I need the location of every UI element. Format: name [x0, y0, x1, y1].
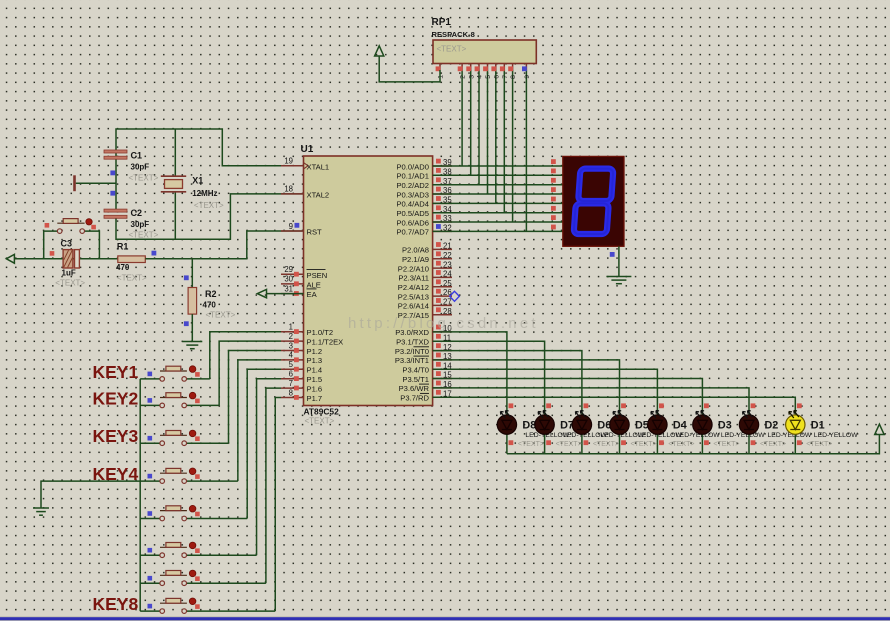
svg-text:LED-YELLOW: LED-YELLOW — [721, 432, 765, 439]
wire P0 rows to 7-seg display — [433, 165, 563, 167]
svg-text:<TEXT>: <TEXT> — [117, 274, 147, 283]
LED D7 — [535, 415, 554, 434]
svg-text:AT89C52: AT89C52 — [304, 407, 340, 417]
wire XTAL1 net: C1 top to U1 pin 19 — [116, 129, 304, 166]
svg-text:<TEXT>: <TEXT> — [806, 441, 832, 448]
capacitor C1 — [104, 150, 127, 153]
svg-text:P2.3/A11: P2.3/A11 — [398, 274, 429, 283]
svg-text:P3.2/INT0: P3.2/INT0 — [395, 347, 429, 356]
svg-text:P1.2: P1.2 — [307, 347, 323, 356]
svg-text:<TEXT>: <TEXT> — [631, 441, 657, 448]
resistor pack RP1 RESPACK-8 — [433, 40, 536, 64]
node red square near C3 — [50, 251, 55, 256]
svg-text:470: 470 — [203, 301, 217, 310]
wire X1 crystal branch — [174, 129, 176, 239]
svg-text:P2.5/A13: P2.5/A13 — [398, 292, 429, 301]
svg-text:C2: C2 — [131, 208, 143, 218]
svg-text:P1.6: P1.6 — [307, 384, 323, 393]
wire C1-C2 middle node to ground stub — [76, 153, 116, 210]
svg-text:<TEXT>: <TEXT> — [129, 230, 159, 239]
svg-text:P1.1/T2EX: P1.1/T2EX — [307, 337, 344, 346]
wire XTAL2 net: C2 bottom / X1 bottom to U1 pin 18 — [116, 194, 304, 239]
ground (keys) — [33, 507, 49, 509]
svg-text:D1: D1 — [811, 420, 825, 432]
svg-text:RST: RST — [307, 228, 323, 237]
wire RP1 pin columns to P0 rows — [461, 70, 463, 166]
svg-text:30pF: 30pF — [131, 163, 150, 172]
wire key 3 to U1 P1.2 — [229, 351, 282, 444]
wire RST net: R1 to U1 pin 9 — [145, 231, 303, 259]
op-amp-style MCU body U1 AT89C52 — [304, 156, 433, 406]
svg-text:<TEXT>: <TEXT> — [194, 201, 224, 210]
capacitor C3 (electrolytic) — [63, 250, 73, 268]
wire RP1 pin1 to power — [379, 56, 440, 82]
ground (7-seg) — [606, 276, 631, 278]
svg-text:P0.0/AD0: P0.0/AD0 — [396, 162, 429, 171]
svg-text:D4: D4 — [673, 420, 687, 432]
wire key 6 to U1 P1.5 — [257, 379, 281, 556]
power terminal (up arrow, LED bus) — [875, 424, 884, 434]
push button key 3 — [140, 442, 160, 444]
svg-text:8: 8 — [510, 75, 517, 79]
svg-text:P0.2/AD2: P0.2/AD2 — [396, 181, 429, 190]
svg-text:P3.7/RD: P3.7/RD — [400, 394, 429, 403]
svg-text:3: 3 — [289, 341, 293, 350]
svg-text:30: 30 — [284, 275, 293, 284]
svg-text:<TEXT>: <TEXT> — [518, 441, 544, 448]
svg-text:31: 31 — [284, 284, 293, 293]
svg-text:7: 7 — [502, 75, 509, 79]
svg-text:27: 27 — [443, 298, 452, 307]
svg-text:<TEXT>: <TEXT> — [760, 441, 786, 448]
power terminal (left arrow) — [6, 254, 14, 263]
svg-text:<TEXT>: <TEXT> — [55, 279, 85, 288]
svg-text:P0.5/AD5: P0.5/AD5 — [396, 209, 429, 218]
wire R2 bottom lead — [191, 314, 193, 341]
7-segment digit 8 — [574, 169, 614, 234]
svg-text:KEY8: KEY8 — [93, 594, 139, 614]
wire R2 top lead — [191, 259, 193, 288]
svg-text:P2.6/A14: P2.6/A14 — [398, 302, 429, 311]
svg-text:XTAL1: XTAL1 — [307, 162, 330, 171]
7-segment display body — [563, 156, 624, 246]
node blue squares on R2 leads — [184, 275, 189, 280]
svg-text:RP1: RP1 — [432, 17, 452, 28]
wire key 2 to U1 P1.1 — [219, 341, 281, 405]
U1 left pin squares — [294, 272, 299, 277]
LED pin squares — [509, 403, 514, 408]
svg-text:2: 2 — [460, 75, 467, 79]
svg-text:29: 29 — [284, 265, 293, 274]
EA power arrow (pin 31) — [267, 293, 304, 295]
svg-text:21: 21 — [443, 242, 452, 251]
wire key 7 to U1 P1.6 — [266, 388, 281, 583]
svg-text:6: 6 — [289, 370, 293, 379]
svg-text:3: 3 — [468, 75, 475, 79]
svg-text:<TEXT>: <TEXT> — [437, 45, 467, 54]
wire reset button parallel branch — [44, 231, 100, 259]
svg-text:P3.6/WR: P3.6/WR — [399, 384, 430, 393]
svg-text:1: 1 — [438, 75, 445, 79]
7-seg pin squares — [551, 159, 556, 164]
net marker blue diamond at P2.5 — [450, 291, 460, 301]
svg-text:C1: C1 — [131, 151, 143, 161]
svg-text:470: 470 — [116, 263, 130, 272]
resistor R2 — [188, 288, 197, 315]
svg-text:XTAL2: XTAL2 — [307, 190, 330, 199]
wire LED cathodes to common bus — [506, 434, 508, 454]
svg-text:P1.4: P1.4 — [307, 366, 323, 375]
push button key 5 — [140, 518, 160, 520]
ground (R2) — [182, 341, 202, 343]
U1 clock mark XTAL1 — [304, 163, 309, 169]
wire reset main rail (terminal to R1) — [14, 258, 117, 260]
svg-text:<TEXT>: <TEXT> — [556, 441, 582, 448]
svg-text:P1.5: P1.5 — [307, 375, 323, 384]
svg-text:12MHz: 12MHz — [192, 189, 217, 198]
svg-text:P2.4/A12: P2.4/A12 — [398, 283, 429, 292]
svg-text:D5: D5 — [635, 420, 649, 432]
svg-text:P3.3/INT1: P3.3/INT1 — [395, 356, 429, 365]
svg-text:P1.7: P1.7 — [307, 394, 323, 403]
svg-text:KEY3: KEY3 — [93, 426, 139, 446]
node blue square right of R1 — [152, 251, 157, 256]
svg-text:24: 24 — [443, 270, 452, 279]
svg-text:KEY2: KEY2 — [93, 388, 139, 408]
wire keys rail to ground — [41, 481, 140, 508]
svg-text:<TEXT>: <TEXT> — [305, 417, 335, 426]
svg-text:P0.4/AD4: P0.4/AD4 — [396, 200, 429, 209]
svg-text:P0.7/AD7: P0.7/AD7 — [396, 228, 429, 237]
U1 right pin squares — [436, 159, 441, 164]
wire key 1 to U1 P1.0 — [210, 332, 281, 379]
svg-text:D3: D3 — [718, 420, 732, 432]
svg-text:22: 22 — [443, 251, 452, 260]
svg-text:<TEXT>: <TEXT> — [713, 441, 739, 448]
svg-text:D6: D6 — [597, 420, 611, 432]
svg-text:4: 4 — [477, 75, 484, 79]
svg-text:LED-YELLOW: LED-YELLOW — [814, 432, 858, 439]
svg-text:EA: EA — [307, 290, 318, 299]
LED D4 — [648, 415, 667, 434]
svg-text:23: 23 — [443, 260, 452, 269]
svg-text:25: 25 — [443, 279, 452, 288]
capacitor C2 — [104, 209, 127, 212]
svg-text:4: 4 — [289, 351, 294, 360]
push button key 1 — [140, 378, 160, 380]
node blue square (7-seg common) — [610, 252, 615, 257]
push button key 4 — [140, 480, 160, 482]
svg-text:R1: R1 — [117, 242, 129, 252]
U1 right pin stubs — [433, 165, 452, 167]
svg-text:X1: X1 — [192, 176, 203, 186]
svg-text:U1: U1 — [301, 144, 314, 155]
LED D5 — [610, 415, 629, 434]
window bottom strip — [0, 616, 890, 618]
svg-text:9: 9 — [524, 75, 531, 79]
svg-text:P0.1/AD1: P0.1/AD1 — [396, 172, 429, 181]
svg-text:5: 5 — [485, 75, 492, 79]
svg-text:19: 19 — [284, 157, 293, 166]
crystal X1 — [161, 175, 186, 177]
svg-text:P3.4/T0: P3.4/T0 — [402, 366, 429, 375]
U1 left pin stubs — [281, 165, 304, 167]
svg-text:http://blog.csdn.net: http://blog.csdn.net — [348, 315, 539, 332]
svg-text:1uF: 1uF — [62, 269, 76, 278]
LED D6 — [572, 415, 591, 434]
power terminal (up arrow, RP1 common) — [375, 46, 384, 56]
svg-text:P3.5/T1: P3.5/T1 — [402, 375, 429, 384]
wire LED common bus to power — [507, 435, 880, 454]
svg-text:R2: R2 — [205, 289, 217, 299]
svg-text:C3: C3 — [61, 239, 73, 249]
svg-text:P1.3: P1.3 — [307, 356, 323, 365]
svg-text:P2.0/A8: P2.0/A8 — [402, 246, 429, 255]
svg-text:7: 7 — [289, 379, 293, 388]
svg-text:KEY4: KEY4 — [93, 464, 139, 484]
wire keys common left rail — [139, 379, 141, 611]
push button key 8 — [140, 610, 160, 612]
push button key 2 — [140, 404, 160, 406]
svg-text:<TEXT>: <TEXT> — [593, 441, 619, 448]
svg-text:P1.0/T2: P1.0/T2 — [307, 328, 334, 337]
svg-text:1: 1 — [289, 323, 293, 332]
wire key 5 to U1 P1.4 — [247, 369, 281, 518]
svg-text:PSEN: PSEN — [307, 271, 328, 280]
LED D2 — [739, 415, 758, 434]
svg-text:KEY1: KEY1 — [93, 362, 139, 382]
ground (crystal cap midpoint) — [73, 175, 76, 191]
svg-text:30pF: 30pF — [131, 220, 150, 229]
wire P3 rows to LED columns — [433, 332, 507, 415]
push button key 6 — [140, 554, 160, 556]
wire 7-seg common cathode to ground — [618, 246, 620, 276]
LED D1 — [786, 415, 805, 434]
svg-text:8: 8 — [289, 388, 293, 397]
svg-text:P0.6/AD6: P0.6/AD6 — [396, 218, 429, 227]
svg-text:<TEXT>: <TEXT> — [668, 441, 694, 448]
RP1 pin stubs and squares — [439, 64, 441, 71]
svg-text:P2.2/A10: P2.2/A10 — [398, 264, 429, 273]
LED D3 — [693, 415, 712, 434]
svg-text:2: 2 — [289, 332, 293, 341]
resistor R1 — [118, 256, 146, 263]
svg-text:6: 6 — [493, 75, 500, 79]
svg-text:5: 5 — [289, 360, 294, 369]
svg-text:RESPACK-8: RESPACK-8 — [432, 30, 475, 39]
svg-text:D2: D2 — [765, 420, 779, 432]
svg-text:18: 18 — [284, 185, 293, 194]
svg-text:ALE: ALE — [307, 280, 321, 289]
svg-text:9: 9 — [289, 222, 293, 231]
svg-text:P0.3/AD3: P0.3/AD3 — [396, 190, 429, 199]
svg-text:P3.1/TXD: P3.1/TXD — [396, 338, 429, 347]
svg-text:P2.1/A9: P2.1/A9 — [402, 255, 429, 264]
push button key 7 — [140, 582, 160, 584]
wire key 8 to U1 P1.7 — [275, 398, 281, 612]
svg-text:<TEXT>: <TEXT> — [206, 311, 236, 320]
LED D8 — [497, 415, 516, 434]
node blue squares C1/C2 midpoint — [110, 171, 115, 176]
push button (reset) — [57, 229, 62, 234]
svg-text:D8: D8 — [522, 420, 536, 432]
svg-text:<TEXT>: <TEXT> — [129, 174, 159, 183]
wire key 4 to U1 P1.3 — [238, 360, 281, 481]
